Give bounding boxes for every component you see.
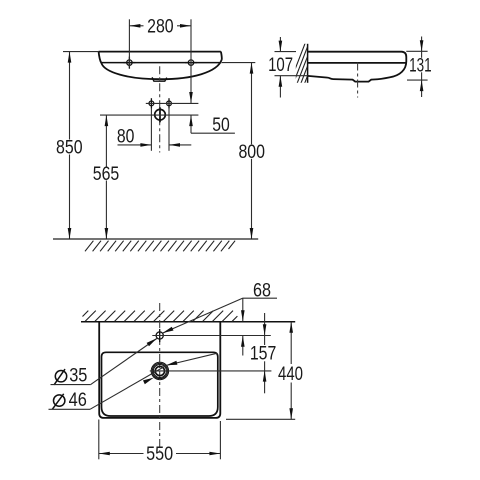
faucet hole right (small) bbox=[167, 98, 172, 108]
fixing hole left bbox=[123, 57, 135, 69]
dimension 131 bbox=[406, 37, 427, 98]
dimension 80 bbox=[118, 109, 192, 151]
dimension 800 bbox=[222, 63, 256, 239]
svg-text:35: 35 bbox=[69, 366, 87, 387]
svg-text:107: 107 bbox=[268, 55, 293, 76]
dimension 565 bbox=[105, 115, 107, 239]
dimension 280 bbox=[129, 19, 191, 103]
svg-text:50: 50 bbox=[212, 115, 230, 136]
wall line side bbox=[307, 44, 309, 83]
svg-text:46: 46 bbox=[69, 390, 87, 411]
dimension 850 bbox=[63, 52, 99, 239]
basin outer rect plan bbox=[99, 322, 220, 418]
wall hatching side bbox=[294, 35, 309, 121]
center line side bbox=[357, 63, 359, 98]
svg-text:565: 565 bbox=[93, 164, 120, 185]
label D35 with leader bbox=[55, 371, 66, 382]
dimension 440 bbox=[226, 322, 295, 420]
dimension 107 bbox=[275, 37, 308, 98]
label D46 with leader bbox=[54, 395, 65, 406]
bowl rounded rect plan bbox=[102, 352, 218, 416]
svg-text:850: 850 bbox=[56, 138, 83, 159]
tap hole line (565 / 50 extension) bbox=[100, 114, 198, 116]
dimension 68 bbox=[242, 298, 277, 355]
svg-text:68: 68 bbox=[253, 280, 271, 301]
drain hole line plan bbox=[150, 370, 272, 372]
basin rim line (through fixing holes) bbox=[101, 62, 221, 64]
drain fitting front bbox=[152, 77, 167, 81]
drain plan bbox=[151, 362, 168, 379]
center line plan bbox=[159, 303, 161, 451]
svg-text:550: 550 bbox=[146, 444, 173, 465]
basin side profile bbox=[308, 52, 407, 82]
wall line plan bbox=[81, 321, 295, 323]
faucet hole line bbox=[146, 102, 199, 104]
dimension 157 bbox=[264, 313, 266, 393]
basin front outline bbox=[99, 52, 222, 80]
center line front (dash-dot) bbox=[159, 66, 161, 152]
wall hatching plan bbox=[83, 311, 238, 322]
faucet hole line plan bbox=[152, 335, 270, 337]
svg-text:800: 800 bbox=[238, 142, 265, 163]
fixing hole right bbox=[185, 60, 197, 65]
dimension 50 bbox=[191, 115, 235, 133]
floor line bbox=[53, 238, 258, 240]
dimension 550 bbox=[99, 420, 221, 460]
faucet hole left (small) bbox=[149, 98, 154, 108]
svg-text:440: 440 bbox=[278, 364, 303, 385]
main tap hole (big circle) bbox=[155, 107, 166, 122]
faucet hole plan bbox=[156, 329, 163, 342]
svg-text:80: 80 bbox=[117, 127, 135, 148]
svg-text:131: 131 bbox=[409, 55, 432, 76]
floor hatching bbox=[85, 241, 235, 252]
leader from 68 label to faucet hole bbox=[162, 298, 242, 333]
svg-text:157: 157 bbox=[250, 344, 277, 365]
svg-text:280: 280 bbox=[147, 17, 174, 38]
